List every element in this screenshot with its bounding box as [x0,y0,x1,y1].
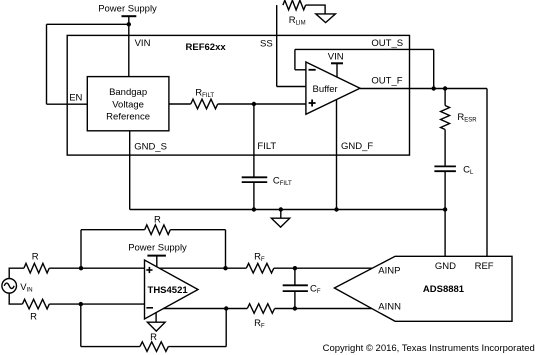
wire CF bottom stub [294,291,296,308]
svg-text:THS4521: THS4521 [148,285,189,296]
wire CFILT to ground bus [253,182,255,209]
wire VIN pin vertical (power to bandgap VIN) [128,16,130,76]
bandgap voltage reference block [87,77,169,131]
wire buffer feedback minus input [295,69,306,71]
THS minus sign [146,307,153,309]
wire ground bus horizontal [130,209,445,211]
svg-text:VIN: VIN [328,51,344,62]
wire top feedback left vertical [80,230,82,269]
THS plus sign [146,269,152,271]
wire THS ground stub [155,313,157,323]
wire CL to ground bus [444,171,446,209]
wire SS to buffer [277,86,306,88]
power supply bar symbol [122,15,137,17]
svg-text:R: R [32,252,39,263]
buffer supply bar [331,62,343,64]
wire FILT pin vertical upper [253,104,255,177]
node FILT junction dot [252,102,256,106]
resistor RFILT [191,99,218,109]
wire R to THS + input [49,267,144,269]
IC REF62xx outline box [67,35,409,155]
node CF top dot [293,266,297,270]
node CL-bus dot [443,207,447,211]
node bottom output dot [224,306,228,310]
wire OUT_S vertical right [433,49,435,88]
node top output dot [223,266,227,270]
wire VIN top to R [9,268,24,278]
wire RESR to CL [444,130,446,167]
wire THS bottom output [163,308,247,310]
wire bottom feedback horizontal right [168,346,226,348]
node FILT-bus dot [252,207,256,211]
resistor R (bottom input) [22,299,49,309]
svg-text:AINP: AINP [378,266,400,277]
resistor RF (top) [246,263,273,273]
svg-text:Power Supply: Power Supply [128,242,187,253]
node top input dot [79,266,83,270]
wire ground stub [280,210,282,219]
wire bottom feedback horizontal left [81,346,140,348]
wire RF to AINP [274,267,373,269]
svg-text:Buffer: Buffer [313,84,338,95]
ground symbol (RLIM) [316,14,336,23]
svg-text:REF62xx: REF62xx [186,42,227,53]
resistor RESR [441,106,450,130]
wire RLIM to ground [306,5,326,14]
wire GND_S vertical [129,131,131,210]
source VIN circle [2,279,17,294]
wire RF to AINN [275,308,372,310]
wire top feedback horizontal right [170,229,225,231]
wire GND pin vertical [444,210,446,257]
wire VIN bottom to R [9,293,22,304]
svg-text:Bandgap: Bandgap [109,87,147,98]
node bottom input dot [79,302,83,306]
wire bandgap output to RFILT [169,103,191,105]
capacitor CL [434,165,456,167]
svg-text:FILT: FILT [257,141,276,152]
capacitor CF [283,284,308,286]
wire THS supply stub [156,256,158,267]
svg-text:OUT_S: OUT_S [371,38,403,49]
ground symbol (bus) [271,218,289,227]
svg-text:AINN: AINN [378,302,401,313]
wire buffer supply stub [336,63,338,77]
wire OUT_S feedback horizontal [295,48,434,50]
svg-text:GND_F: GND_F [341,141,373,152]
svg-text:GND: GND [435,261,456,272]
svg-text:VIN: VIN [135,38,151,49]
wire SS pin vertical [276,5,278,86]
node OUT_S/OUT_F junction dot [432,86,436,90]
wire OUT_F output [360,88,487,90]
svg-text:Reference: Reference [106,112,150,123]
svg-text:SS: SS [260,38,273,49]
resistor R (top feedback) [145,225,171,235]
svg-text:EN: EN [69,93,82,104]
node CF bottom dot [293,306,297,310]
node RESR junction dot [443,86,447,90]
wire top feedback horizontal left [81,229,145,231]
svg-text:R: R [154,215,161,226]
svg-text:Copyright © 2016, Texas Instru: Copyright © 2016, Texas Instruments Inco… [323,343,535,354]
node GND_F-bus dot [334,207,338,211]
svg-text:REF: REF [475,261,494,272]
wire feedback vertical left [294,49,296,69]
wire bottom feedback right vertical [225,309,227,347]
ground symbol (THS) [147,322,165,331]
ADC ADS8881 outline [334,256,512,321]
wire EN left vertical [46,24,48,104]
wire power to EN horizontal [47,23,129,25]
wire OUT_F to RESR [444,89,446,106]
wire GND_F vertical [336,100,338,210]
resistor RF (bottom) [247,304,274,314]
source VIN sine [4,283,14,288]
node ground-symbol dot [279,207,283,211]
svg-text:Power Supply: Power Supply [98,4,157,15]
power supply bar (THS) [147,255,166,257]
capacitor CFILT [242,176,268,178]
op-amp THS4521 triangle [145,260,199,319]
wire top feedback right vertical [225,230,227,269]
svg-text:R: R [150,332,157,343]
wire R to THS - input [49,303,144,305]
svg-text:Voltage: Voltage [112,100,144,111]
wire bottom feedback left vertical [80,304,82,347]
svg-text:OUT_F: OUT_F [371,76,402,87]
svg-text:GND_S: GND_S [134,141,167,152]
resistor R (top input) [24,263,49,273]
wire THS top output [160,267,247,269]
op-amp buffer triangle [306,62,360,114]
resistor R (bottom feedback) [140,342,168,352]
wire EN horizontal into bandgap [47,103,88,105]
buffer minus sign [309,69,316,71]
wire REF pin vertical [486,89,488,257]
wire RFILT to buffer + input [218,103,306,105]
node power junction dot [127,22,131,26]
wire CF top stub [294,268,296,285]
resistor RLIM [283,0,306,10]
buffer plus sign [309,102,316,104]
svg-text:R: R [30,312,37,323]
svg-text:ADS8881: ADS8881 [423,284,465,295]
